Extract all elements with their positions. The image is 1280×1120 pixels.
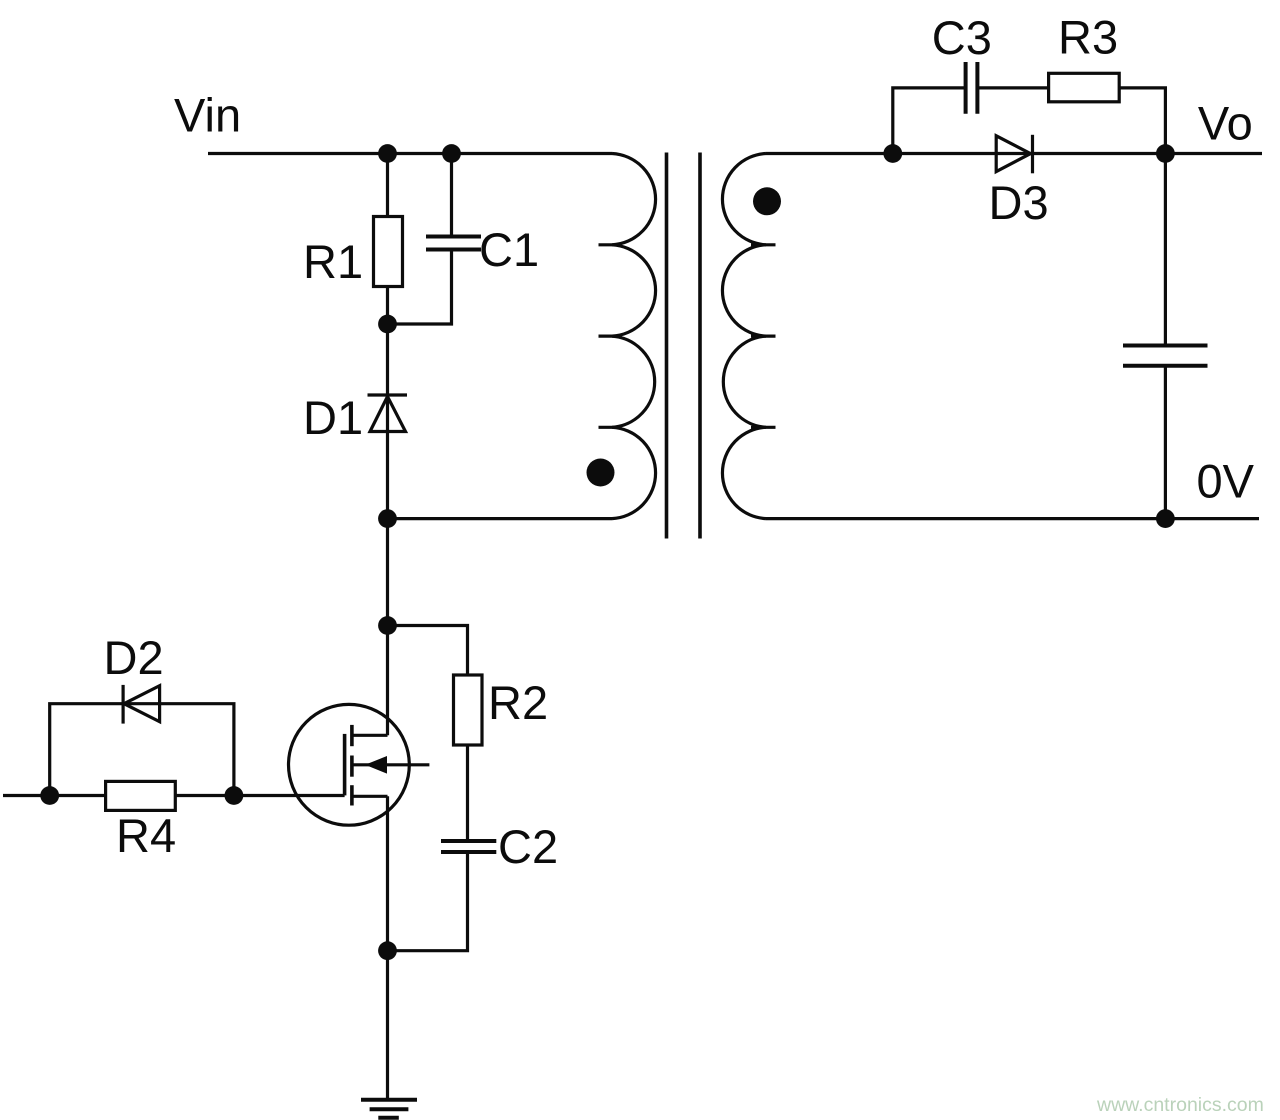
transistor Q1 channel dashes [350,725,354,806]
svg-text:D2: D2 [104,631,164,684]
wire R1 bottom lead [386,287,389,432]
transformer primary polarity dot [587,459,615,487]
resistor R1 [374,217,403,287]
wire gate input [3,794,345,797]
wire to ground [386,951,389,1100]
svg-text:D3: D3 [989,176,1049,229]
diode D2 [123,685,160,724]
diode D3 [996,135,1032,174]
node junction 0V [1156,509,1175,528]
capacitor C2 [441,841,496,852]
node junction Vo [1156,144,1175,163]
svg-text:R1: R1 [303,235,363,288]
wire output cap bottom lead [1164,366,1167,519]
svg-text:C2: C2 [498,820,558,873]
wire C1 bottom lead [388,250,452,325]
capacitor output [1123,346,1208,366]
wire C1 top lead [450,154,453,237]
node junction R1-C1 [378,315,397,334]
wire R2 top leg [388,626,468,677]
wire C3 left leg [893,88,966,154]
node junction snubber R2C2 top [378,616,397,635]
wire C2 bottom leg [388,852,468,951]
svg-text:R3: R3 [1058,11,1118,64]
wire R1 top lead [386,154,389,219]
svg-text:0V: 0V [1197,455,1255,508]
transformer T1 secondary winding [722,154,766,519]
wire R2 to C2 [466,745,469,841]
wire primary bottom lead [388,517,613,520]
svg-text:www.cntronics.com: www.cntronics.com [1096,1094,1264,1116]
transformer T1 primary winding [612,154,656,519]
svg-text:Vo: Vo [1198,97,1253,150]
wire C3 to R3 [977,86,1050,89]
transistor Q1 MOSFET body [289,704,410,825]
wire D1 to primary bottom [386,432,389,519]
svg-text:R2: R2 [488,676,548,729]
capacitor C1 [426,237,481,250]
wire R3 right leg [1119,88,1165,154]
transistor Q1 source connector [353,795,388,798]
svg-text:R4: R4 [116,809,176,862]
transistor Q1 gate bar [343,734,347,796]
resistor R3 [1049,73,1120,102]
node junction primary bottom [378,509,397,528]
node junction source-snubber [378,941,397,960]
svg-text:D1: D1 [303,391,363,444]
wire secondary top rail [766,152,1262,155]
node junction gate left [40,786,59,805]
transformer secondary polarity dot [753,187,781,215]
node junction Vin-C1 [442,144,461,163]
svg-text:C3: C3 [932,11,992,64]
svg-text:Vin: Vin [174,89,241,142]
capacitor C3 [966,62,978,114]
wire source down [386,796,389,950]
transformer core [667,153,701,539]
transistor Q1 drain connector [353,734,388,737]
node junction Vin-R1 [378,144,397,163]
wire output cap top lead [1164,154,1167,346]
node junction snubber left [883,144,902,163]
wire D2 branch [50,704,234,796]
node junction gate right [225,786,244,805]
wire drain chain [386,519,389,736]
diode D1 [368,395,408,432]
svg-text:C1: C1 [479,223,539,276]
wire Vin top rail [208,152,612,155]
transistor Q1 substrate arrow [353,763,429,766]
ground [361,1100,417,1118]
resistor R2 [454,675,483,745]
wire secondary bottom 0V rail [766,517,1259,520]
resistor R4 [106,781,176,810]
